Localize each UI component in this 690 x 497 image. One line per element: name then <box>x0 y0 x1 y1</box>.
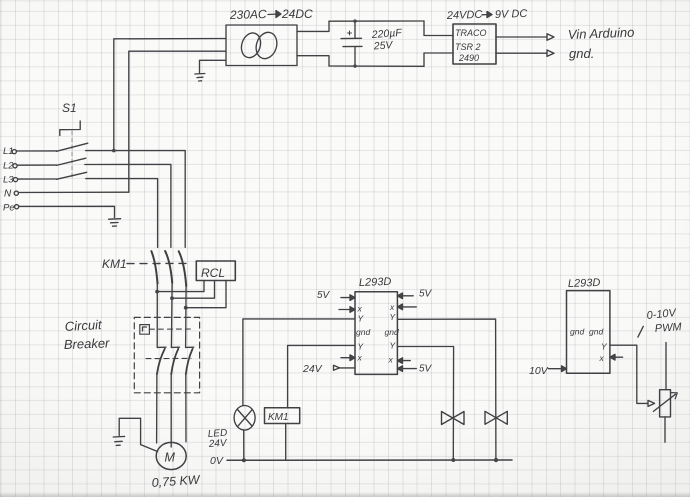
valve V2 <box>485 411 507 424</box>
arrow x into U2 left lower <box>341 355 355 361</box>
wire KM1 pole3 down <box>185 286 188 347</box>
wire RCL conn3 <box>186 281 226 308</box>
label 0-10V PWM <box>646 307 683 335</box>
node PE terminal <box>3 202 15 213</box>
breaker pole2 tick <box>171 346 179 348</box>
capacitor C1 220uF <box>341 19 362 67</box>
svg-text:24V: 24V <box>302 363 323 375</box>
wire U2 left Y2 to KM1 coil <box>288 345 355 407</box>
svg-text:RCL: RCL <box>201 266 225 280</box>
arrow 5V into U2 bottom-right <box>397 366 416 372</box>
U1 text <box>455 28 487 63</box>
wire U1 to gnd arrow <box>496 52 547 54</box>
arrow x into U2 right lower <box>397 358 410 364</box>
U2 pin labels left <box>356 304 370 363</box>
switch S1 pole L1 blade <box>57 143 88 151</box>
wire motor ground link <box>119 418 157 451</box>
switch S1 coupling dashed stem <box>71 131 73 179</box>
circuit breaker dashed link from trip unit <box>149 328 192 330</box>
wire U1 to Vin arrow <box>496 36 547 38</box>
wire KM1 coil to 0V <box>285 424 287 461</box>
wire pole1 to motor <box>156 374 158 443</box>
ground (transformer) <box>195 74 205 82</box>
arrow Vin <box>547 34 554 40</box>
LED lamp cross <box>238 410 253 427</box>
arrow 10V into U3 <box>548 366 566 372</box>
arrow gnd <box>547 50 554 56</box>
label 230AC->24DC <box>229 7 313 22</box>
circuit breaker dashed box <box>134 317 199 392</box>
svg-text:gnd: gnd <box>356 327 370 337</box>
breaker pole2 blade <box>171 349 178 375</box>
junction LED/0V <box>242 458 246 462</box>
wire above potentiometer <box>665 343 667 390</box>
svg-text:x: x <box>357 304 363 314</box>
wire U2 right Y1 to valve2 <box>397 319 496 460</box>
node N terminal <box>4 188 12 199</box>
arrow in label 24VDC->9VDC <box>482 12 492 18</box>
ground (PE) <box>109 219 121 227</box>
svg-text:gnd.: gnd. <box>569 46 594 61</box>
junction pole3/RCL <box>184 306 188 310</box>
svg-text:24V: 24V <box>207 438 228 450</box>
wire N <box>18 191 128 193</box>
breaker pole1 blade <box>157 349 165 375</box>
breaker pole1 tick <box>157 346 166 348</box>
wire U2 left Y1 to LED <box>243 319 355 406</box>
svg-text:N: N <box>4 188 12 199</box>
label 24VDC->9VDC <box>446 8 528 22</box>
potentiometer R1 arrow <box>653 393 677 412</box>
svg-text:0-10V: 0-10V <box>646 307 678 322</box>
svg-text:TSR 2: TSR 2 <box>455 42 481 52</box>
wire 0V rail <box>227 459 512 461</box>
svg-text:Y: Y <box>601 342 608 352</box>
wire pole2 to motor <box>170 374 172 447</box>
svg-text:5V: 5V <box>317 290 331 301</box>
wire transformer to ground <box>200 60 227 73</box>
arrow 5V into U2 top-left <box>341 295 355 301</box>
junction L1/transformer <box>112 149 116 153</box>
wire transformer output top to cap rail <box>297 21 329 31</box>
RCL box <box>196 261 235 281</box>
arrow x into U2 left <box>339 307 355 313</box>
junction pole1/RCL <box>155 290 159 294</box>
contactor KM1 pole 3 blade <box>179 251 187 286</box>
wire top rail <box>329 20 424 22</box>
wire L1 in <box>16 150 56 152</box>
svg-text:x: x <box>599 353 605 363</box>
svg-text:gnd: gnd <box>589 327 603 337</box>
svg-text:L3: L3 <box>3 175 14 186</box>
switch S1 coupling bracket <box>60 121 80 136</box>
switch S1 pole L3 blade <box>57 172 87 179</box>
switch S1 pole L2 blade <box>57 158 86 165</box>
wire LED to 0V <box>243 430 245 460</box>
value label 220uF 25V <box>370 27 402 53</box>
arrow in label 230AC->24DC <box>268 11 281 18</box>
svg-text:x: x <box>357 353 363 363</box>
junction V1/0V <box>451 458 455 462</box>
breaker pole3 tick <box>186 346 194 348</box>
breaker pole3 blade <box>186 349 193 375</box>
transformer T1 winding right <box>253 30 280 62</box>
contactor KM1 pole 2 blade <box>165 251 172 283</box>
svg-text:5V: 5V <box>419 289 433 300</box>
circuit breaker dashed coupling line <box>146 357 191 359</box>
LED lamp circle <box>234 406 255 431</box>
svg-text:24DC: 24DC <box>281 7 313 21</box>
KM1 coil box <box>265 408 300 424</box>
transformer T1 box <box>226 25 297 66</box>
svg-text:Y: Y <box>358 342 365 352</box>
junction pole2/RCL <box>170 296 174 300</box>
svg-text:0V: 0V <box>210 455 224 467</box>
svg-text:x: x <box>388 355 394 365</box>
svg-text:Pe: Pe <box>3 202 15 213</box>
U2 pin labels right <box>385 302 399 365</box>
contactor KM1 pole 1 blade <box>151 251 157 283</box>
svg-text:Vin Arduino: Vin Arduino <box>568 25 635 42</box>
wire top rail to TRACO <box>424 21 453 36</box>
svg-text:230AC: 230AC <box>229 7 267 22</box>
wire N to transformer input <box>129 51 226 192</box>
arrow 5V into U2 top-right <box>397 293 413 299</box>
wire bottom rail to TRACO <box>424 53 453 66</box>
svg-text:Circuit: Circuit <box>64 317 103 334</box>
node L3 terminal <box>3 175 14 186</box>
svg-text:KM1: KM1 <box>268 412 289 423</box>
svg-text:TRACO: TRACO <box>455 28 487 38</box>
motor M <box>156 442 186 469</box>
arrow into pot <box>648 400 655 406</box>
arrow x into U3 right <box>610 354 623 360</box>
arrow 24V into U2 <box>334 365 356 370</box>
svg-text:L293D: L293D <box>568 277 601 290</box>
valve V1 <box>442 412 465 425</box>
wire L2 out <box>85 164 171 247</box>
svg-text:gnd: gnd <box>385 327 399 337</box>
svg-text:24VDC: 24VDC <box>446 9 483 22</box>
wire L2 in <box>17 164 56 166</box>
wire bottom rail <box>329 65 424 67</box>
label Circuit Breaker <box>64 317 111 352</box>
wire transformer output bottom to cap rail <box>297 56 329 66</box>
slash before PWM <box>638 326 643 337</box>
transformer T1 winding left <box>238 30 263 60</box>
wire L3 in <box>18 178 57 180</box>
svg-text:Y: Y <box>390 312 397 322</box>
circuit breaker trip unit square <box>140 325 150 335</box>
svg-text:9V DC: 9V DC <box>495 8 528 21</box>
svg-text:M: M <box>165 451 176 465</box>
svg-text:S1: S1 <box>62 101 77 115</box>
wire pole3 to motor <box>185 374 187 441</box>
wire L1 out <box>86 151 186 248</box>
svg-text:PWM: PWM <box>654 321 682 335</box>
wire RCL conn2 <box>172 281 215 299</box>
node L2 terminal <box>3 161 14 172</box>
wire RCL conn1 <box>157 281 204 292</box>
svg-text:Y: Y <box>358 314 365 324</box>
wire L3 out <box>86 179 158 248</box>
label LED 24V <box>207 428 228 450</box>
U1 TRACO TSR2 2490 box <box>453 24 496 64</box>
wire KM1 pole2 down <box>170 283 173 348</box>
svg-text:5V: 5V <box>419 364 433 375</box>
potentiometer R1 body <box>660 390 671 417</box>
U3 pin labels <box>570 327 608 364</box>
wire U3 Y to pot arrow <box>610 345 648 403</box>
arrow x into U2 right <box>397 304 416 310</box>
svg-text:2490: 2490 <box>458 53 479 63</box>
ground (motor) <box>113 436 124 445</box>
wire PE <box>19 206 115 217</box>
svg-text:L293D: L293D <box>359 276 392 289</box>
U2 L293D box <box>355 292 397 375</box>
svg-text:gnd: gnd <box>570 327 584 337</box>
wire KM1 pole1 down <box>156 284 158 348</box>
U3 L293D box <box>567 291 610 374</box>
svg-text:Y: Y <box>390 341 397 351</box>
svg-text:10V: 10V <box>529 365 549 377</box>
svg-text:25V: 25V <box>372 39 393 52</box>
svg-text:KM1: KM1 <box>102 257 127 271</box>
junction V2/0V <box>494 458 498 462</box>
svg-text:x: x <box>389 302 395 312</box>
KM1 coupling dashed line <box>127 262 188 264</box>
node L1 terminal <box>3 146 14 157</box>
svg-text:Breaker: Breaker <box>64 335 111 352</box>
wire L1 to transformer input <box>114 39 226 151</box>
svg-text:0,75 KW: 0,75 KW <box>151 473 201 490</box>
wire U2 right Y2 to valve1 <box>397 347 453 461</box>
wire below potentiometer <box>664 417 666 442</box>
